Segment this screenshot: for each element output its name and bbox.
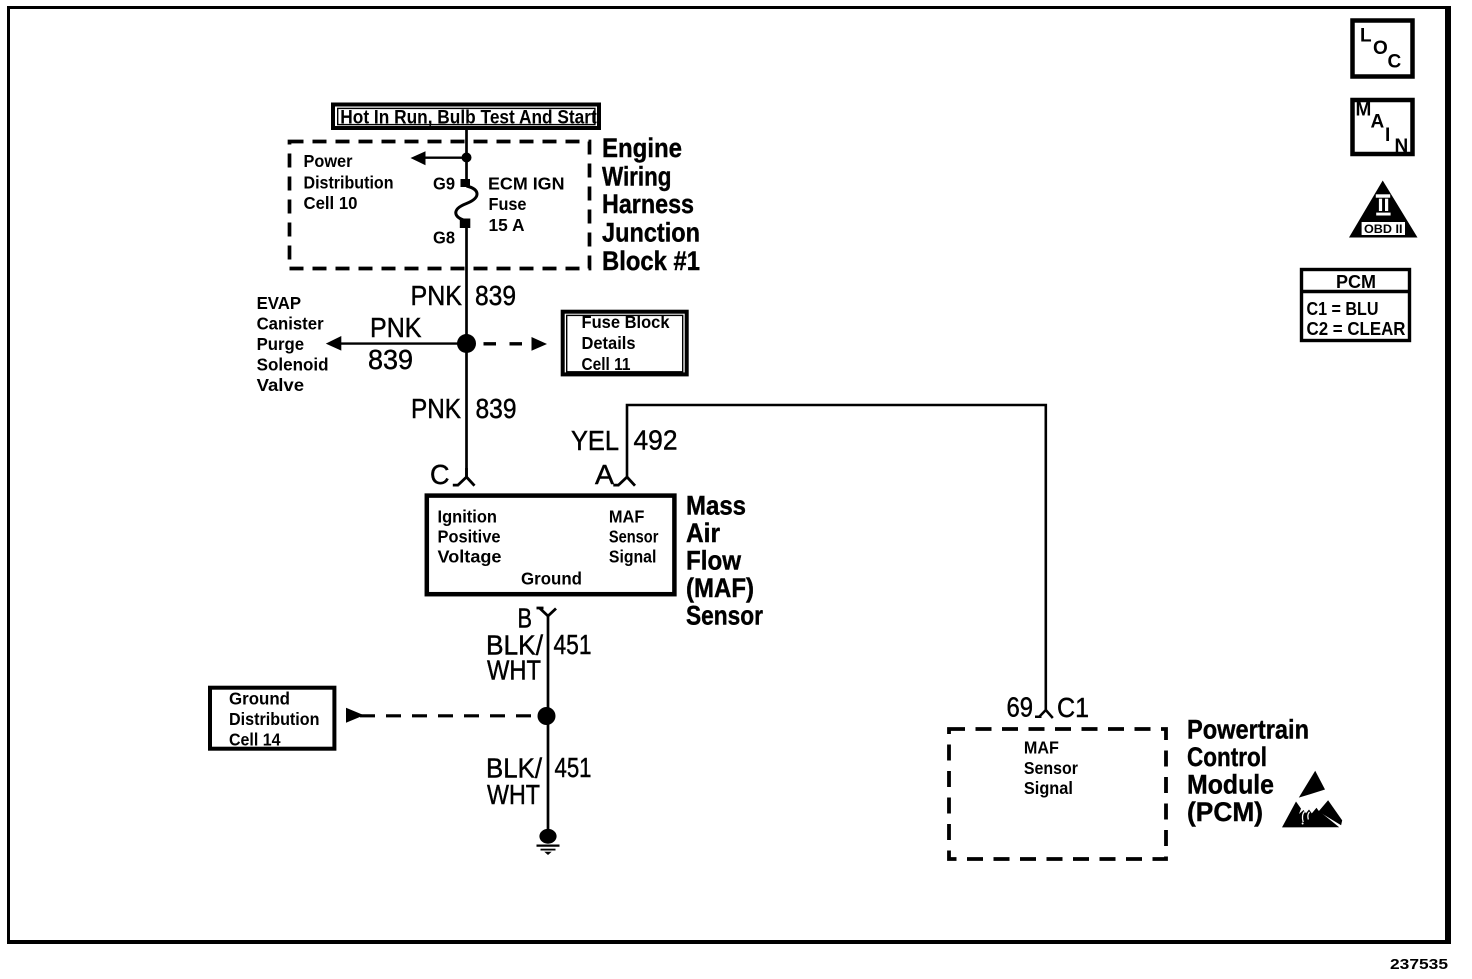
svg-text:Fuse Block: Fuse Block <box>582 312 670 332</box>
connector pin C symbol <box>453 468 475 486</box>
svg-text:Signal: Signal <box>1024 778 1073 798</box>
arrow to EVAP solenoid <box>326 336 342 351</box>
svg-text:O: O <box>1373 38 1388 59</box>
label: Powertrain Control Module (PCM) <box>1187 715 1309 828</box>
svg-text:Block #1: Block #1 <box>602 246 700 276</box>
svg-text:C1 = BLU: C1 = BLU <box>1307 299 1379 319</box>
wire: branch to power distribution arrow <box>423 156 467 158</box>
svg-text:839: 839 <box>368 344 413 375</box>
connector pin 69 C1 symbol <box>1035 710 1053 718</box>
label: ECM IGN Fuse 15 A <box>488 174 565 236</box>
svg-text:Canister: Canister <box>257 313 324 333</box>
label: Power Distribution Cell 10 <box>304 151 394 213</box>
wire: fuse to junction <box>465 226 468 344</box>
label: Engine Wiring Harness Junction Block #1 <box>602 133 700 276</box>
arrow from ground distribution <box>346 708 364 723</box>
svg-text:Distribution: Distribution <box>229 709 320 729</box>
svg-text:MAF: MAF <box>1024 738 1059 758</box>
svg-text:Control: Control <box>1187 742 1267 772</box>
label: Ground Distribution Cell 14 <box>229 689 320 750</box>
svg-text:Positive: Positive <box>438 527 501 547</box>
connector pin A symbol <box>613 477 635 486</box>
svg-text:N: N <box>1395 136 1409 157</box>
svg-text:C2 = CLEAR: C2 = CLEAR <box>1307 319 1406 339</box>
svg-text:Cell 11: Cell 11 <box>582 354 631 374</box>
svg-text:Ground: Ground <box>521 569 582 589</box>
label: Fuse Block Details Cell 11 <box>582 312 670 374</box>
svg-text:ECM IGN: ECM IGN <box>488 174 565 194</box>
svg-text:Ignition: Ignition <box>438 507 498 527</box>
svg-text:Cell 10: Cell 10 <box>304 193 358 213</box>
arrow to power distribution <box>411 151 426 165</box>
svg-text:Fuse: Fuse <box>489 194 527 214</box>
svg-text:M: M <box>1356 100 1372 121</box>
label: EVAP Canister Purge Solenoid Valve <box>257 293 329 395</box>
wire: branch to EVAP solenoid <box>339 342 467 344</box>
svg-text:Sensor: Sensor <box>686 601 763 631</box>
svg-text:15 A: 15 A <box>489 215 525 235</box>
svg-text:Air: Air <box>686 518 720 548</box>
svg-text:L: L <box>1360 26 1372 47</box>
dashed reference wire to fuse block details <box>484 342 524 345</box>
PCM connector legend box <box>1302 270 1410 341</box>
svg-text:Cell 14: Cell 14 <box>229 730 281 750</box>
svg-text:839: 839 <box>476 393 517 424</box>
svg-text:PNK: PNK <box>370 312 422 343</box>
svg-text:PNK: PNK <box>411 280 463 311</box>
svg-text:492: 492 <box>634 425 678 456</box>
junction dot PNK 839 <box>457 334 476 353</box>
arrow to fuse block details <box>532 337 548 351</box>
svg-text:PNK: PNK <box>411 393 461 424</box>
MAF sensor box <box>427 496 675 595</box>
fuse terminal G8 <box>460 219 471 229</box>
svg-text:EVAP: EVAP <box>257 293 302 313</box>
svg-text:Harness: Harness <box>602 189 694 219</box>
ESD sensitive device symbol <box>1282 771 1342 828</box>
svg-text:Module: Module <box>1187 770 1274 800</box>
svg-text:Flow: Flow <box>686 546 742 576</box>
wire: feed box down to fuse <box>465 128 468 181</box>
svg-text:C1: C1 <box>1057 692 1089 723</box>
svg-text:Wiring: Wiring <box>602 162 672 192</box>
svg-text:Sensor: Sensor <box>609 527 659 547</box>
svg-text:YEL: YEL <box>571 425 619 456</box>
svg-text:C: C <box>1388 52 1402 73</box>
svg-text:Mass: Mass <box>686 491 746 521</box>
dashed reference wire to ground junction <box>360 714 537 717</box>
OBD II symbol <box>1349 181 1418 238</box>
label: MAF Sensor Signal (in MAF box) <box>609 507 659 567</box>
wire: YEL 492 from MAF pin A to PCM <box>627 405 1046 710</box>
svg-text:Details: Details <box>582 333 636 353</box>
connector pin B symbol <box>537 608 557 616</box>
svg-text:C: C <box>430 459 450 490</box>
svg-text:451: 451 <box>554 629 592 660</box>
svg-text:Sensor: Sensor <box>1024 758 1078 778</box>
svg-text:(PCM): (PCM) <box>1187 797 1263 827</box>
MAIN reference box <box>1353 100 1413 158</box>
fuse block details box <box>563 312 687 375</box>
fuse terminal G9 <box>461 179 471 187</box>
svg-text:451: 451 <box>555 752 592 783</box>
svg-text:Hot In Run, Bulb Test And Star: Hot In Run, Bulb Test And Start <box>340 106 597 128</box>
svg-text:I: I <box>1385 125 1390 146</box>
wire: BLK/WHT 451 from pin B to ground junction <box>547 616 550 716</box>
svg-text:237535: 237535 <box>1390 956 1448 973</box>
svg-text:Valve: Valve <box>257 375 305 395</box>
svg-text:A: A <box>595 459 614 490</box>
svg-text:69: 69 <box>1007 692 1034 723</box>
label: Ignition Positive Voltage <box>438 507 502 567</box>
LOC reference box <box>1353 21 1413 77</box>
svg-text:839: 839 <box>475 280 516 311</box>
svg-text:A: A <box>1371 112 1385 133</box>
svg-text:Engine: Engine <box>602 133 682 163</box>
svg-text:WHT: WHT <box>487 655 541 686</box>
wire: junction down to MAF pin C <box>465 344 468 478</box>
svg-text:Power: Power <box>304 151 353 171</box>
label: MAF Sensor Signal (in PCM box) <box>1024 738 1078 798</box>
svg-text:(MAF): (MAF) <box>686 573 754 603</box>
svg-text:G9: G9 <box>433 174 455 194</box>
ground symbol <box>537 829 560 855</box>
svg-text:Voltage: Voltage <box>438 547 502 567</box>
svg-text:MAF: MAF <box>609 507 645 527</box>
svg-text:PCM: PCM <box>1336 272 1376 292</box>
svg-text:G8: G8 <box>433 228 455 248</box>
svg-text:Purge: Purge <box>257 334 305 354</box>
junction block dashed box <box>290 142 590 269</box>
svg-text:WHT: WHT <box>487 779 540 810</box>
svg-text:Signal: Signal <box>609 547 657 567</box>
svg-text:Junction: Junction <box>602 218 700 248</box>
svg-text:OBD II: OBD II <box>1364 222 1403 236</box>
svg-text:Distribution: Distribution <box>304 173 394 193</box>
svg-text:Solenoid: Solenoid <box>257 354 329 374</box>
junction dot BLK/WHT 451 <box>538 707 556 725</box>
svg-text:Powertrain: Powertrain <box>1187 715 1309 745</box>
PCM dashed box <box>949 729 1166 859</box>
power feed box: Hot In Run, Bulb Test And Start <box>333 105 599 129</box>
label: Mass Air Flow (MAF) Sensor <box>686 491 763 631</box>
ground distribution box <box>210 688 334 749</box>
wire: to ground <box>547 716 550 830</box>
junction dot at fuse feed <box>462 153 472 163</box>
svg-text:Ground: Ground <box>229 689 290 709</box>
fuse element (ECM IGN Fuse 15 A) <box>456 186 477 221</box>
